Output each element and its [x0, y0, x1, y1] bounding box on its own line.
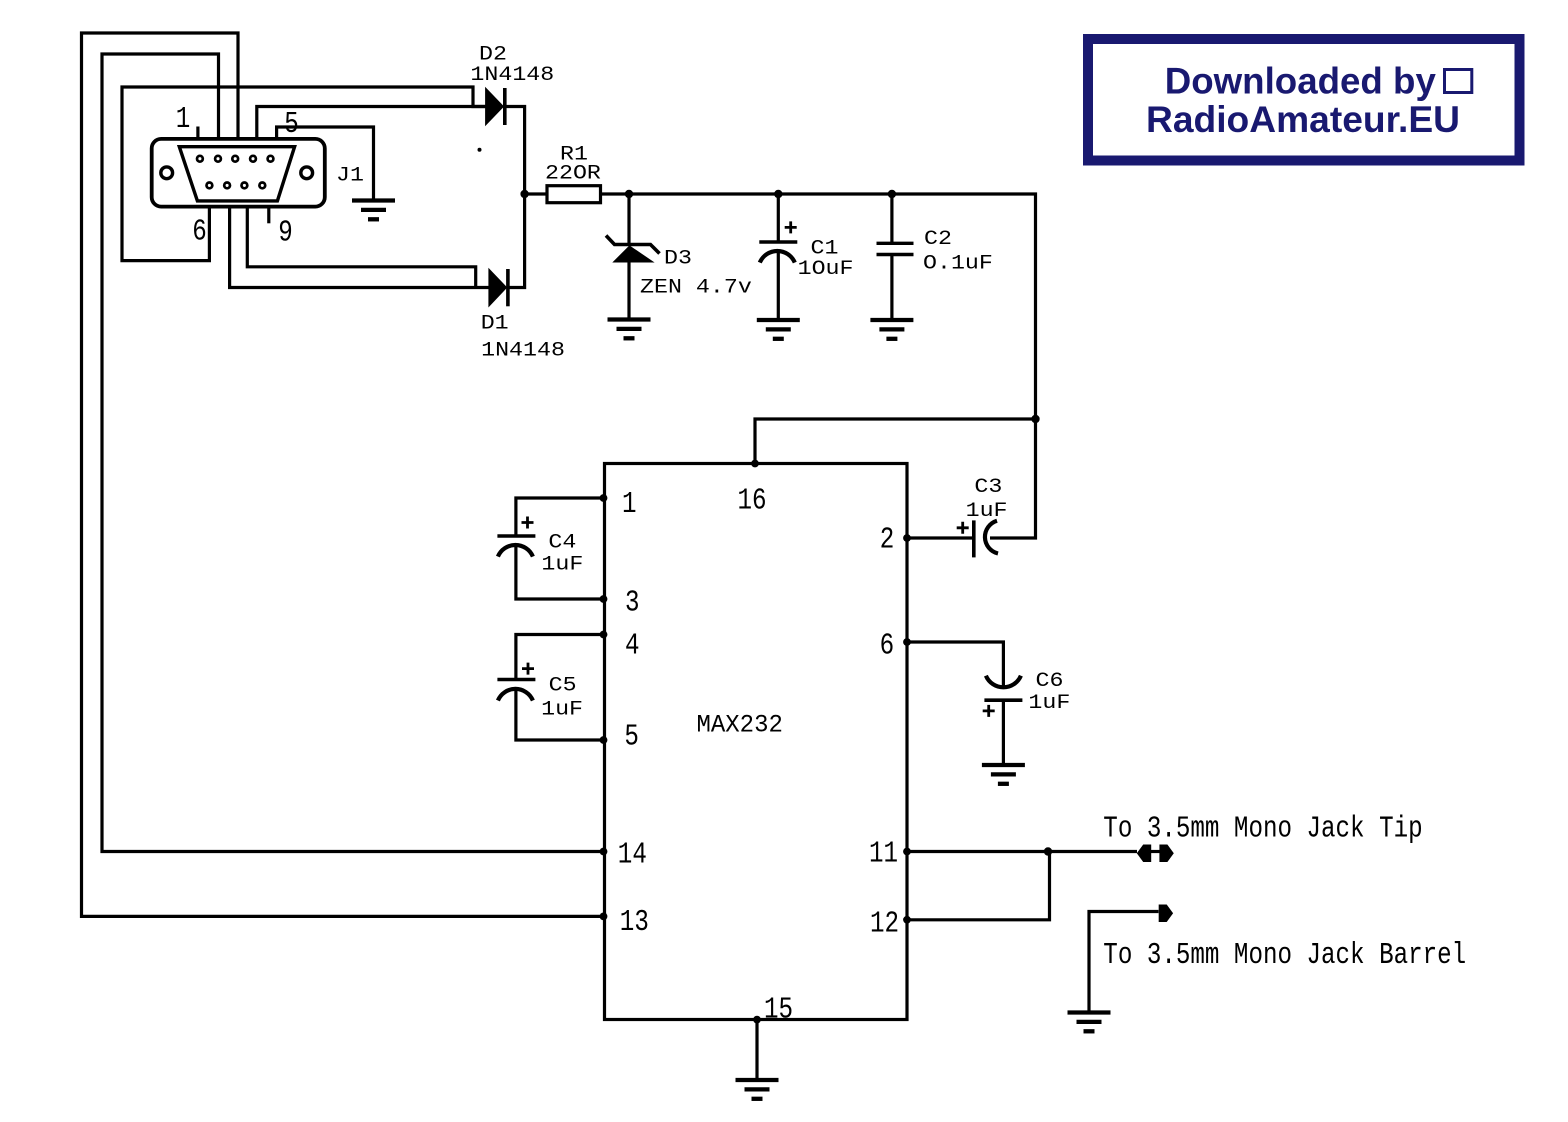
- wire C5 bottom to pin5: [516, 689, 604, 740]
- pin9 stub of J1: [267, 206, 270, 223]
- resistor R1 220R: [547, 186, 601, 203]
- svg-text:C5: C5: [549, 674, 577, 697]
- svg-text:1uF: 1uF: [1028, 691, 1070, 714]
- ground at jack barrel: [1068, 1013, 1111, 1032]
- stray dot artifact: [478, 148, 482, 152]
- wire pin2 of J1 to pin14 of U1: [102, 54, 604, 852]
- wire D2 cathode to D1 cathode vertical bus: [506, 107, 525, 288]
- svg-text:1uF: 1uF: [966, 499, 1008, 522]
- svg-text:13: 13: [620, 905, 649, 940]
- jack barrel connector arrow: [1159, 905, 1173, 923]
- J1 pin holes bottom row 6-9: [207, 183, 266, 189]
- svg-text:C2: C2: [924, 227, 952, 250]
- svg-text:1N4148: 1N4148: [481, 339, 565, 362]
- capacitor C1 plates: [759, 221, 797, 262]
- svg-text:To 3.5mm Mono Jack Barrel: To 3.5mm Mono Jack Barrel: [1103, 938, 1466, 973]
- wire C1 top: [777, 194, 780, 241]
- svg-text:1N4148: 1N4148: [470, 63, 554, 86]
- svg-text:O.1uF: O.1uF: [923, 252, 993, 275]
- capacitor C5 plates: [497, 663, 535, 701]
- wire pin12 up to pin11 node: [906, 852, 1050, 920]
- pin1 stub of J1: [196, 127, 199, 139]
- svg-text:C3: C3: [974, 475, 1002, 498]
- wire pin7 of J1 to D1 anode: [230, 206, 490, 288]
- junction dots: [520, 190, 1052, 856]
- banner missing-glyph box: [1445, 70, 1472, 93]
- wire pin2 to C3 left plate: [906, 536, 972, 539]
- wire pin15 to ground: [755, 1020, 758, 1079]
- svg-text:ZEN 4.7v: ZEN 4.7v: [640, 276, 752, 299]
- ground at J1 pin5: [352, 201, 395, 220]
- svg-text:15: 15: [764, 993, 793, 1028]
- svg-text:6: 6: [192, 215, 207, 250]
- svg-text:16: 16: [738, 484, 767, 519]
- wire pin4 to C5 top: [516, 635, 604, 679]
- svg-text:4: 4: [625, 629, 640, 664]
- connector J1 DB9 trapezoid: [179, 147, 294, 201]
- wire pin5 of J1 to ground: [277, 127, 374, 200]
- wire pin3 of J1 to pin13 of U1 (outer loop): [82, 33, 605, 916]
- J1 left mounting hole: [161, 167, 173, 179]
- capacitor C6 plates: [983, 676, 1023, 717]
- svg-text:6: 6: [880, 629, 895, 664]
- wire pin4 of J1 to D2 anode: [257, 107, 487, 139]
- svg-text:1: 1: [176, 102, 191, 137]
- svg-text:1uF: 1uF: [541, 553, 583, 576]
- capacitor C4 plates: [497, 517, 535, 557]
- wire C6 bottom to ground: [1002, 700, 1005, 764]
- svg-text:1: 1: [622, 487, 637, 522]
- connector J1 DB9 body: [152, 139, 325, 207]
- svg-text:D3: D3: [664, 247, 692, 270]
- wire node to R1 left: [525, 192, 547, 195]
- svg-text:D1: D1: [481, 312, 509, 335]
- svg-text:5: 5: [284, 107, 299, 142]
- jack tip connector arrows: [1137, 845, 1174, 863]
- svg-text:To 3.5mm Mono Jack Tip: To 3.5mm Mono Jack Tip: [1103, 812, 1422, 847]
- wire D3 to ground: [627, 261, 630, 318]
- J1 pin holes top row 1-5: [197, 156, 273, 162]
- ground at C2: [870, 320, 913, 339]
- svg-text:22OR: 22OR: [545, 162, 601, 185]
- IC U1 MAX232 body: [605, 464, 908, 1020]
- ground at pin15: [736, 1080, 779, 1099]
- wire pin6 of J1 to D2 anode: [122, 87, 487, 261]
- wire pin6 to C6: [906, 642, 1003, 686]
- svg-text:1uF: 1uF: [541, 698, 583, 721]
- svg-text:11: 11: [869, 837, 898, 872]
- svg-text:1OuF: 1OuF: [798, 257, 854, 280]
- wire jack barrel to ground: [1089, 912, 1159, 1012]
- svg-text:5: 5: [624, 720, 639, 755]
- svg-text:C6: C6: [1036, 669, 1064, 692]
- ground at D3: [608, 320, 651, 339]
- IC pin dots: [600, 460, 911, 1024]
- diode D1 1N4148: [489, 269, 508, 306]
- svg-text:3: 3: [625, 586, 640, 621]
- banner box Downloaded by RadioAmateur.EU: [1088, 39, 1520, 161]
- svg-text:Downloaded by: Downloaded by: [1165, 61, 1437, 102]
- wire pin11 to jack tip: [906, 850, 1137, 853]
- wire C1 bottom to ground: [777, 252, 780, 319]
- wire R1 right to V+ rail and down to C3 / pin16: [601, 194, 1036, 538]
- wire C2 bottom to ground: [890, 255, 893, 319]
- wire C2 top: [890, 194, 893, 242]
- ground at C1: [757, 320, 800, 339]
- wire pin8 of J1 to D1 anode: [247, 206, 475, 288]
- svg-text:14: 14: [618, 838, 647, 873]
- wire pin1 to C4 top: [516, 498, 604, 535]
- wire pin16 branch horizontal: [755, 419, 1036, 464]
- J1 right mounting hole: [301, 167, 313, 179]
- svg-text:9: 9: [278, 216, 293, 251]
- wire D3 branch down: [627, 194, 630, 245]
- zener diode D3: [606, 236, 660, 263]
- svg-text:RadioAmateur.EU: RadioAmateur.EU: [1146, 99, 1460, 140]
- svg-text:J1: J1: [336, 164, 364, 187]
- capacitor C2 plates: [877, 243, 914, 254]
- ground at C6: [982, 765, 1025, 784]
- svg-text:C4: C4: [548, 531, 576, 554]
- svg-text:MAX232: MAX232: [697, 712, 783, 740]
- svg-text:2: 2: [880, 523, 895, 558]
- diode D2 1N4148: [486, 88, 505, 125]
- wire C4 bottom to pin3: [516, 546, 604, 599]
- capacitor C3 plates: [957, 520, 998, 557]
- svg-text:12: 12: [870, 907, 899, 942]
